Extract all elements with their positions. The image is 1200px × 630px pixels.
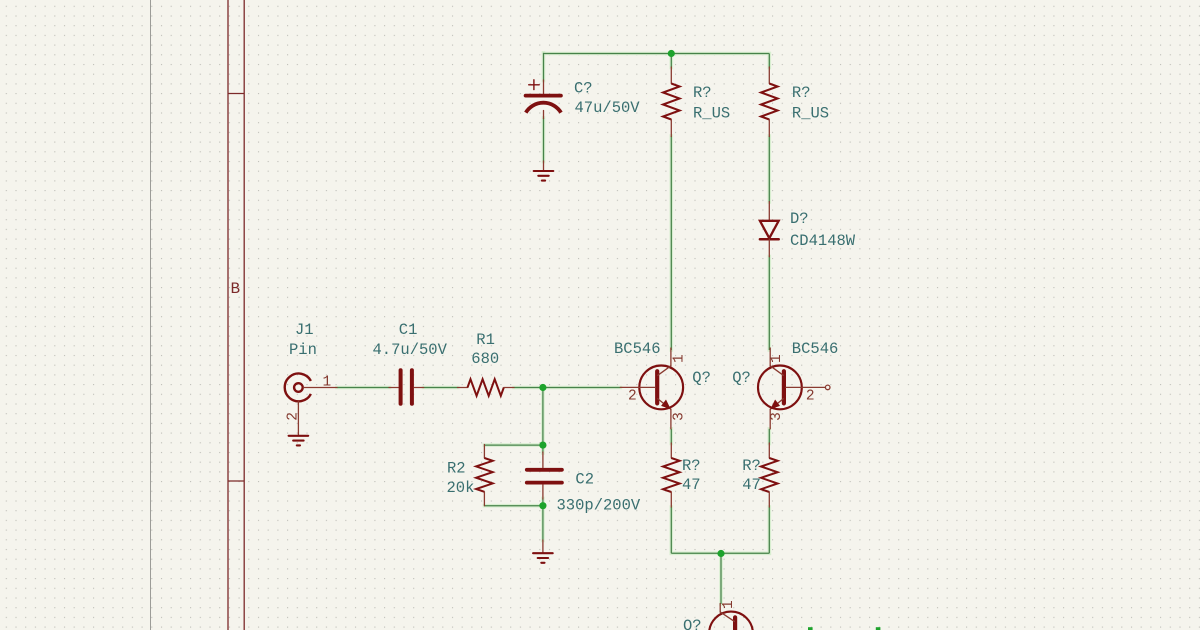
wire filter top to C2 [542,445,544,453]
svg-text:47u/50V: 47u/50V [575,99,641,117]
junction node base/filter [539,384,546,391]
capacitor C2 [527,452,562,499]
wire down to RC filter [542,388,544,446]
resistor R? 47 right: top lead [768,443,770,458]
ground symbol J1 [289,436,309,446]
svg-text:3: 3 [671,412,687,421]
wire R? left to bottom rail [670,507,672,553]
svg-text:1: 1 [721,600,737,609]
svg-text:Q?: Q? [683,617,702,630]
resistor R? R_US left: bottom lead [670,120,672,137]
wire R1 to Q base [514,387,620,389]
resistor R? 47 left: top lead [670,443,672,458]
svg-text:2: 2 [285,412,301,421]
svg-text:47: 47 [682,476,701,494]
resistor R? 47 (right) zigzag [761,458,778,492]
wire R2 to filter bottom [484,505,543,507]
svg-text:C2: C2 [575,470,594,488]
svg-text:Pin: Pin [289,341,317,359]
wire C2 to filter bottom [542,499,544,506]
wire R? right to bottom rail [768,507,770,553]
wire bottom rail to Q tail [720,553,722,604]
wire Q left emitter to R? [670,429,672,444]
svg-text:1: 1 [769,354,785,363]
resistor R1: left lead [458,387,468,389]
svg-text:2: 2 [806,389,815,405]
svg-text:R?: R? [693,84,712,102]
svg-text:47: 47 [742,476,761,494]
wire J1 to C1 [337,387,390,389]
wire bottom rail [671,552,769,554]
svg-text:330p/200V: 330p/200V [557,496,641,514]
svg-text:1: 1 [323,374,332,390]
transistor Q? (bottom, NPN, mirrored, partially visible) [709,604,753,630]
net label fragment 2 (bottom) [876,627,881,630]
resistor R? R_US (right) zigzag [761,84,778,120]
resistor R? R_US right: bottom lead [768,120,770,137]
transistor Q? BC546 (right, NPN, mirrored) [758,348,830,429]
svg-text:R1: R1 [476,331,495,349]
resistor R1 zigzag [468,379,504,396]
ground (top cap) lead [543,161,545,171]
svg-text:2: 2 [628,389,637,405]
svg-text:CD4148W: CD4148W [790,232,856,250]
net label fragment (bottom) [808,627,813,630]
resistor R? 47 left: bottom lead [670,492,672,507]
svg-text:20k: 20k [447,479,475,497]
svg-text:R?: R? [682,457,701,475]
svg-text:Q?: Q? [692,369,711,387]
wire Q right emitter to R? [768,429,770,444]
wire cap C? top [543,53,545,81]
wire rail to R? left [670,54,672,68]
wire filter bottom to ground [542,506,544,541]
wire cap C? to ground [543,118,545,162]
ground (C2) lead [542,540,544,553]
resistor R2 zigzag [476,458,493,492]
svg-text:680: 680 [471,350,499,368]
resistor R2: bottom lead [483,492,485,506]
wire VCC top rail [544,53,770,55]
resistor R? 47 (left) zigzag [663,458,680,492]
svg-text:Q?: Q? [732,369,751,387]
resistor R? R_US left: top lead [670,67,672,84]
svg-text:BC546: BC546 [792,340,839,358]
transistor Q? BC546 (left, NPN) [620,348,683,429]
resistor R? R_US (left) zigzag [663,84,680,120]
svg-text:C?: C? [574,80,593,98]
svg-text:R?: R? [742,457,761,475]
svg-text:4.7u/50V: 4.7u/50V [373,341,448,359]
svg-text:J1: J1 [295,321,314,339]
resistor R1: right lead [504,387,514,389]
wire R? left to Q collector [670,136,672,350]
svg-text:R_US: R_US [792,104,829,122]
svg-text:R2: R2 [447,459,466,477]
svg-text:R?: R? [792,84,811,102]
resistor R? 47 right: bottom lead [768,492,770,507]
wire C1 to R1 [424,387,458,389]
svg-text:1: 1 [671,354,687,363]
junction filter top [539,442,546,449]
svg-text:B: B [231,280,241,298]
wire filter top to R2 [484,444,543,446]
wire rail to R? right [768,54,770,68]
ground symbol C2 [533,553,553,563]
diode D? CD4148W [760,202,779,257]
ground symbol top [534,171,554,181]
svg-text:BC546: BC546 [614,340,661,358]
svg-text:3: 3 [769,412,785,421]
junction top rail / left branch [668,50,675,57]
wire diode to Q right collector [768,257,770,351]
connector J1 (pin socket symbol) [285,374,337,436]
svg-text:D?: D? [790,210,809,228]
resistor R? R_US right: top lead [768,67,770,84]
junction filter bottom [539,502,546,509]
wire R? right to diode D? [768,136,770,202]
capacitor C1 [389,370,424,404]
junction bottom rail [717,550,724,557]
svg-text:R_US: R_US [693,104,730,122]
svg-text:C1: C1 [399,321,418,339]
resistor R2: top lead [483,445,485,459]
capacitor C? (polarized electrolytic) [526,80,561,119]
